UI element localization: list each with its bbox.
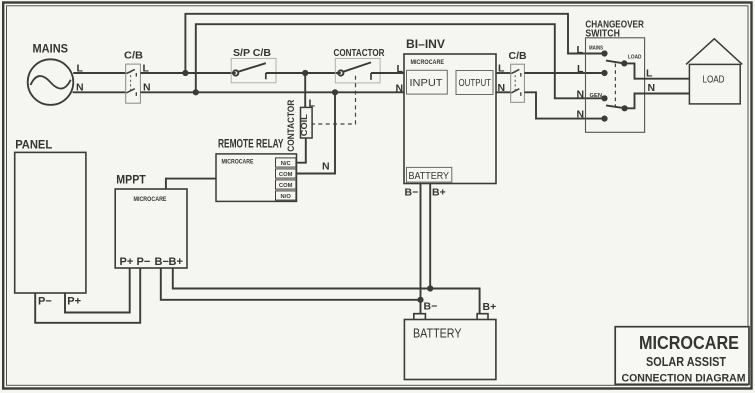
svg-text:INPUT: INPUT [410, 77, 444, 89]
svg-text:C/B: C/B [124, 50, 143, 62]
svg-text:BI–INV: BI–INV [406, 37, 445, 51]
node battery B- junction [417, 297, 423, 303]
C/B output L pole blade [511, 69, 519, 73]
S/P C/B fixed contact tick [265, 73, 267, 79]
relay terminal COM1 box [276, 169, 296, 178]
battery body [404, 320, 496, 380]
circuit breaker C/B input box [126, 64, 141, 103]
svg-text:N/C: N/C [281, 161, 292, 167]
svg-text:N: N [577, 109, 585, 121]
C/B input N pole blade [126, 89, 135, 93]
wire N changeover to load [625, 94, 690, 109]
svg-text:B+: B+ [432, 187, 446, 199]
changeover switch box [586, 38, 645, 133]
dashed actuator link contactor to coil [312, 76, 355, 124]
wire relay to MPPT top [166, 179, 216, 189]
svg-text:P−: P− [137, 256, 151, 268]
C/B input L fixed contact tick [135, 73, 137, 77]
C/B input mechanical link dashed [130, 71, 132, 91]
svg-text:P+: P+ [67, 296, 81, 308]
svg-text:MPPT: MPPT [116, 173, 146, 187]
svg-text:LOAD: LOAD [703, 73, 725, 85]
wire L output to C/B2 [496, 72, 511, 74]
svg-text:MAINS: MAINS [33, 42, 69, 56]
wire L mains to C/B [73, 72, 125, 74]
changeover top blade [606, 61, 624, 64]
S/P C/B pivot contact [233, 70, 238, 75]
svg-text:PANEL: PANEL [15, 137, 52, 151]
BI-INV OUTPUT terminal box [456, 71, 493, 95]
relay terminal COM2 box [276, 180, 296, 189]
svg-text:N: N [76, 82, 84, 94]
relay terminal N/O box [276, 191, 296, 200]
BI-INV BATTERY terminal box [407, 167, 452, 182]
terminal T2 inverter L [601, 70, 607, 76]
svg-text:CONNECTION DIAGRAM: CONNECTION DIAGRAM [622, 373, 746, 385]
svg-text:MICROCARE: MICROCARE [222, 158, 254, 165]
svg-text:B−: B− [405, 187, 419, 199]
BI-INV inverter box [404, 54, 496, 184]
svg-text:L: L [646, 68, 653, 80]
load house body [689, 64, 740, 104]
svg-text:BATTERY: BATTERY [413, 327, 462, 341]
svg-text:P+: P+ [120, 256, 134, 268]
svg-text:B−: B− [424, 301, 438, 313]
title block box [615, 327, 749, 385]
C/B input N fixed contact tick [135, 92, 137, 96]
load house roof [686, 39, 742, 65]
svg-text:MAINS: MAINS [589, 46, 603, 52]
svg-text:N: N [396, 83, 404, 95]
wire MPPT B+ to battery [173, 268, 430, 289]
wire L from C/B to S/P C/B [140, 72, 235, 74]
wire L rail up and across to changeover T1 [185, 14, 601, 73]
wire N rail up and across to changeover T3 [196, 24, 602, 98]
wire MPPT P- to panel [35, 268, 140, 323]
svg-text:CONTACTOR: CONTACTOR [286, 100, 297, 152]
terminal T3 mains N [601, 95, 607, 101]
wire MPPT B- to battery [161, 268, 421, 300]
node L junction to changeover mains rail [182, 70, 188, 76]
wire N from C/B2 down to changeover T4 [524, 92, 601, 118]
relay terminal N/C box [276, 158, 296, 167]
node relay N junction [332, 89, 338, 95]
C/B output L fixed contact tick [520, 73, 522, 77]
wire L changeover to load [624, 63, 689, 78]
svg-text:COIL: COIL [300, 114, 309, 136]
svg-text:N: N [322, 160, 330, 172]
svg-text:MICROCARE: MICROCARE [411, 59, 445, 66]
svg-text:GEN: GEN [590, 93, 603, 99]
svg-text:COM: COM [279, 172, 293, 178]
terminal N common [622, 105, 628, 111]
wire BI-INV B+ down [429, 184, 431, 289]
svg-text:REMOTE RELAY: REMOTE RELAY [218, 139, 284, 151]
C/B output N pole blade [511, 89, 519, 93]
svg-text:N: N [648, 82, 656, 94]
BI-INV INPUT terminal box [407, 70, 448, 94]
C/B output mechanical link dashed [514, 71, 516, 91]
wire B+ over and down to battery terminal [430, 289, 479, 314]
contactor enclosure box [335, 58, 380, 83]
node N junction to changeover gen rail [193, 89, 199, 95]
wire L down to contactor coil [304, 73, 306, 107]
solar panel box [15, 152, 86, 293]
contactor blade [343, 62, 371, 71]
svg-text:L: L [577, 63, 584, 75]
S/P C/B enclosure box [231, 58, 276, 82]
svg-text:S/P C/B: S/P C/B [233, 47, 271, 59]
changeover dashed gang link [614, 64, 616, 107]
svg-text:C/B: C/B [509, 50, 528, 62]
svg-text:COM: COM [279, 183, 293, 189]
terminal T1 mains L [601, 50, 607, 56]
svg-text:L: L [577, 44, 584, 56]
svg-text:B+: B+ [169, 256, 183, 268]
svg-text:B+: B+ [483, 301, 497, 313]
mains source circle [28, 59, 74, 105]
wire N mains to C/B [73, 91, 126, 93]
contactor pivot contact [338, 70, 343, 75]
contactor fixed contact tick [370, 73, 372, 80]
wire coil bottom to relay N/C [296, 138, 306, 163]
C/B output N fixed contact tick [520, 92, 522, 96]
svg-text:CONTACTOR: CONTACTOR [334, 47, 385, 59]
wire N output to C/B2 [496, 91, 511, 93]
wire relay COM to N bus [296, 92, 335, 173]
MPPT box [115, 189, 187, 268]
node battery B+ junction [427, 285, 433, 291]
svg-text:MICROCARE: MICROCARE [639, 333, 739, 353]
S/P C/B blade [238, 63, 266, 72]
terminal LOAD L common [621, 60, 627, 66]
svg-text:P−: P− [38, 296, 52, 308]
mains sine wave [31, 76, 71, 89]
node coil tap junction on L [302, 70, 308, 76]
wire N bus from C/B to BI-INV input [140, 91, 404, 93]
wire BI-INV B- down to battery [420, 184, 422, 314]
svg-text:N/O: N/O [281, 194, 292, 200]
battery positive terminal bump [477, 314, 488, 320]
remote relay box [216, 154, 297, 202]
wire L contactor to BI-INV input [371, 72, 404, 74]
svg-text:BATTERY: BATTERY [409, 170, 450, 182]
C/B input L pole blade [126, 69, 135, 73]
terminal T4 inverter N [601, 116, 607, 122]
changeover bottom blade [606, 105, 625, 108]
svg-text:MICROCARE: MICROCARE [134, 196, 167, 203]
wire L from C/B2 to changeover T2 [524, 72, 601, 74]
svg-text:L: L [397, 63, 404, 75]
svg-text:SOLAR ASSIST: SOLAR ASSIST [646, 355, 726, 369]
svg-text:B−: B− [155, 256, 169, 268]
wire MPPT P+ to panel [65, 268, 130, 313]
svg-text:L: L [77, 63, 84, 75]
svg-text:LOAD: LOAD [628, 55, 642, 61]
circuit breaker C/B output box [511, 64, 525, 102]
contactor coil box [301, 107, 313, 138]
battery negative terminal bump [414, 314, 426, 320]
wire L from S/P C/B to contactor [266, 72, 341, 74]
svg-text:OUTPUT: OUTPUT [459, 78, 492, 89]
svg-text:N: N [577, 89, 585, 101]
